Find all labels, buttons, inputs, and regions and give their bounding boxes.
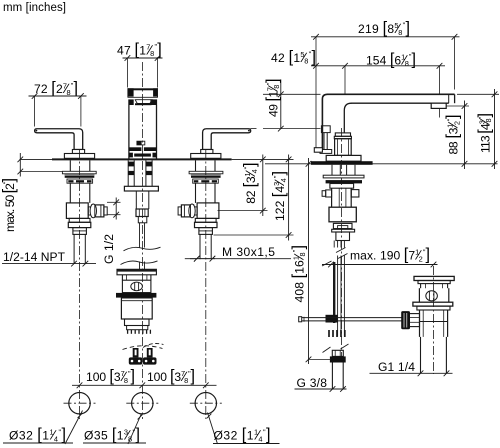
svg-text:122 [43∕4"]: 122 [43∕4"] bbox=[270, 171, 288, 221]
svg-text:max. 190 [71∕2"]: max. 190 [71∕2"] bbox=[350, 246, 430, 264]
svg-text:Ø35 [13∕8"]: Ø35 [13∕8"] bbox=[84, 426, 140, 444]
svg-text:113 [43∕8"]: 113 [43∕8"] bbox=[475, 113, 493, 153]
svg-text:219 [85∕8"]: 219 [85∕8"] bbox=[358, 19, 410, 37]
svg-text:max. 50 [2"]: max. 50 [2"] bbox=[0, 178, 18, 232]
svg-text:G 1/2: G 1/2 bbox=[102, 234, 116, 264]
svg-text:mm [inches]: mm [inches] bbox=[3, 2, 66, 14]
svg-text:M 30x1,5: M 30x1,5 bbox=[222, 245, 275, 259]
svg-text:1/2-14 NPT: 1/2-14 NPT bbox=[3, 250, 66, 264]
svg-text:100 [37∕8"]: 100 [37∕8"] bbox=[86, 367, 135, 385]
svg-text:100 [37∕8"]: 100 [37∕8"] bbox=[147, 367, 195, 385]
svg-text:G1 1/4: G1 1/4 bbox=[378, 360, 415, 374]
svg-text:G 3/8: G 3/8 bbox=[297, 376, 328, 390]
